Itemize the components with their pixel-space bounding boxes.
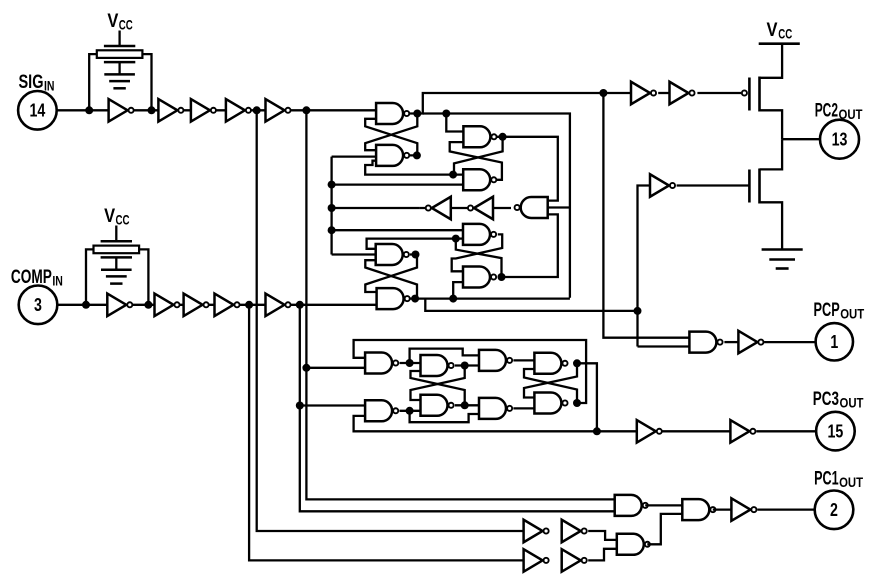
inverter reset-1 (points left) (426, 197, 451, 220)
svg-text:PCP: PCP (814, 300, 840, 321)
wire PC3 bottom rail (N4 output to PC3 inverter) (354, 363, 597, 431)
svg-text:IN: IN (44, 79, 55, 94)
svg-text:CC: CC (116, 213, 130, 228)
NAND gate B (SIG set latch, lower, 3-input) (376, 145, 409, 166)
junction G output (498, 273, 506, 281)
inverter PC1 chain2-a (524, 549, 549, 572)
junction COMP row drop-1 (245, 301, 253, 309)
wire resistor left stub down to SIG row (89, 54, 97, 110)
junction SIG drop-2 / PC3 FF N1 input (302, 364, 310, 372)
svg-text:2: 2 (830, 500, 838, 520)
junction reset rail / reset inverters (328, 204, 336, 212)
NAND gate PCP (689, 332, 722, 353)
wire I output jog down to N-driver net (425, 299, 637, 311)
inverter PC3-1 (637, 420, 662, 443)
NMOS transistor (PC2 pull-down) (749, 139, 782, 249)
NAND gate N4 (PC3 FF) (534, 353, 567, 374)
junction COMP row / resistor left (82, 301, 90, 309)
junction G out net / F bottom input (452, 235, 460, 243)
wire COMP drop-2 to PC1 NAND input (300, 305, 615, 512)
junction I output / G bottom riser (449, 295, 457, 303)
wire reset rail bottom to H mid input (332, 253, 376, 255)
inverter PCP (738, 331, 763, 354)
wire N6 output to N7 top input (455, 404, 479, 406)
junction top rail / PCP drop (599, 89, 607, 97)
wire N-driver net to NMOS inverter (638, 186, 651, 347)
junction COMP row drop-2 (296, 301, 304, 309)
inverter COMP-1 (107, 294, 132, 317)
wire X-coupling N6 out to N2 bottom input (411, 371, 465, 405)
wire X-coupling N8 out to N4 bottom input (524, 369, 577, 403)
wire N7 output to N8 bottom input (513, 407, 534, 409)
wire N5 output to N6 bottom input (400, 410, 421, 412)
wire reset rail vertical (330, 157, 332, 255)
junction N8 output (573, 399, 581, 407)
svg-text:COMP: COMP (11, 267, 52, 288)
wire X-coupling D out to C bottom input (450, 142, 502, 180)
junction SIG row / resistor right (148, 106, 156, 114)
junction N6 output (461, 401, 469, 409)
wire COMP drop-1 to PC1 chain-2 (249, 305, 523, 561)
wire gate A output horizontal to E rail (423, 114, 570, 298)
label COMP_IN (11, 267, 63, 289)
NAND gate H (COMP set latch, upper, 3-input) (376, 244, 409, 265)
wire X-coupling N4 out to N8 top input (524, 363, 577, 397)
junction N4 output (573, 359, 581, 367)
inverter COMP-4 (215, 294, 240, 317)
svg-text:15: 15 (828, 421, 844, 441)
wire X-coupling F out to G top input (452, 234, 503, 271)
junction B output (413, 151, 421, 159)
ground (PC2 driver) (762, 250, 803, 269)
junction N2 output (461, 362, 469, 370)
wire X-coupling H out to I top input (365, 255, 417, 293)
wire I output row to E rail (411, 297, 570, 299)
inverter COMP-5 (266, 294, 291, 317)
wire PCP drop from top rail (V_A) (603, 93, 689, 338)
svg-text:CC: CC (778, 27, 792, 42)
wire N1 output to N2 top input (400, 362, 421, 364)
wire N2 output to N3 bottom input (455, 364, 479, 366)
wire PC3 inverter-2 to pin 15 (756, 430, 816, 432)
wire reset rail to F top input (332, 229, 463, 231)
inverter COMP-3 (184, 294, 209, 317)
inverter SIG-5 (266, 99, 291, 122)
wire N3 output to N4 top input (513, 359, 534, 361)
wire SIG drop-2 to PC1 NAND input (306, 110, 614, 499)
junction SIG row / resistor left (85, 106, 93, 114)
NAND gate C (SIG second latch, upper) (463, 126, 496, 147)
NAND gate N6 (PC3 FF) (421, 395, 454, 416)
VCC pull-up block (SIG input amplifier) (97, 11, 143, 88)
wire reset rail to D bottom input (332, 183, 464, 185)
NAND gate F (COMP second latch, upper) (463, 224, 496, 245)
junction COMP drop-2 / PC3 FF N5 input (296, 402, 304, 410)
pin 2 (PC1_OUT) (815, 491, 854, 530)
junction reset rail / D input (328, 181, 336, 189)
svg-text:PC2: PC2 (815, 100, 838, 121)
label PCP_OUT (814, 300, 865, 322)
wire PC3 top border (N8 output feedback to N1) (354, 340, 586, 403)
wire X-coupling I out to H bottom input (365, 260, 417, 298)
label PC2_OUT (815, 100, 863, 122)
wire COMP drop-2 to N5 input (300, 404, 365, 406)
wire gate A output / top rail to PC2 buffers (407, 93, 631, 114)
wire A output drop to gate C top input (446, 114, 463, 132)
svg-text:3: 3 (34, 295, 42, 315)
wire resistor left stub down to COMP row (86, 249, 94, 304)
svg-text:PC1: PC1 (814, 469, 839, 490)
inverter PC1 chain1-a (524, 520, 549, 543)
wire P1 output to P3 top input (645, 504, 682, 506)
wire PC3 inverter-1 to inverter-2 (662, 430, 730, 432)
wire chain2 to NAND P2 bottom input (588, 549, 617, 561)
svg-text:OUT: OUT (839, 475, 864, 490)
PMOS transistor (PC2 pull-up) (742, 44, 782, 140)
wire COMP_IN row (57, 304, 376, 306)
inverter SIG-2 (158, 99, 183, 122)
wire N-driver net to PCP input (638, 345, 690, 347)
junction H output (412, 251, 420, 259)
wire E mid input from A/I rail (548, 206, 570, 208)
wire resistor right stub down to inverter output node (139, 249, 148, 304)
wire SIG drop-2 to N1 input (306, 367, 365, 369)
junction A output / C top input drop (442, 110, 450, 118)
svg-text:13: 13 (832, 130, 848, 150)
junction COMP row / resistor right (144, 301, 152, 309)
NAND gate N8 (PC3 FF) (534, 393, 567, 414)
wire N1 over-route to N3 top input (410, 349, 479, 363)
wire PC3 rail to inverter (597, 430, 637, 432)
junction I output / X-coupling (411, 295, 419, 303)
wire C output to E top rail (497, 137, 558, 201)
wire I output riser to G bottom input (453, 282, 463, 299)
NAND gate N7 (PC3 FF) (479, 398, 512, 419)
wire X-coupling A out to B top input (365, 114, 417, 151)
wire buffer chain to PMOS gate (658, 92, 669, 94)
NAND gate N2 (PC3 FF) (421, 355, 454, 376)
wire E output to reset inverters (419, 207, 511, 209)
wire buffer-2 to PMOS gate bubble (697, 92, 741, 94)
junction SIG row drop-1 (253, 106, 261, 114)
NAND gate D (SIG second latch, lower) (463, 169, 496, 190)
buffer PC2-P2 (670, 82, 695, 105)
wire reset rail top to B mid input (332, 155, 377, 157)
inverter SIG-1 (109, 99, 134, 122)
wire P2 output riser to P3 (647, 514, 682, 544)
NAND gate P2 (PC1) (617, 534, 650, 555)
pin 3 (COMP_IN) (19, 286, 58, 325)
label PC1_OUT (814, 469, 864, 491)
wire reset rail to inverter chain (332, 207, 420, 209)
wire G output to E bottom rail (502, 214, 558, 277)
inverter PC3-2 (730, 420, 755, 443)
label PC3_OUT (813, 389, 864, 411)
wire X-coupling N2 out to N6 top input (411, 366, 465, 401)
svg-text:1: 1 (830, 332, 838, 352)
svg-text:14: 14 (30, 101, 46, 121)
svg-text:OUT: OUT (840, 307, 865, 322)
NAND gate E (3-input reset, points left) (515, 197, 548, 218)
NAND gate P1 (PC1) (615, 495, 648, 516)
wire X-coupling G out to F bottom input (456, 239, 502, 277)
wire PC2 output node to pin 13 (782, 138, 820, 140)
inverter reset-2 (points left) (468, 197, 493, 220)
svg-text:IN: IN (52, 274, 63, 289)
inverter PC1 chain1-b (562, 520, 587, 543)
NAND gate N5 (PC3 FF) (365, 400, 398, 421)
wire NMOS inverter output to gate (677, 184, 750, 186)
junction reset rail / F input (328, 226, 336, 234)
inverter COMP-2 (155, 294, 180, 317)
wire SIG drop-1 to PC1 chain-1 (257, 110, 524, 531)
NAND gate P3 (PC1) (682, 499, 715, 520)
junction PC3 bottom rail / output inverter (593, 427, 601, 435)
wire PCP inverter to pin 1 (764, 341, 815, 343)
wire G/F net to F bottom input (456, 237, 463, 239)
NAND gate G (COMP second latch, lower) (463, 267, 496, 288)
junction C output (499, 133, 507, 141)
svg-text:V: V (767, 20, 778, 41)
wire G/F net to H top input (367, 239, 456, 249)
NAND gate I (COMP set latch, lower) (377, 288, 410, 309)
junction N-driver net / PCP input (634, 307, 642, 315)
svg-text:OUT: OUT (840, 395, 865, 410)
inverter SIG-4 (226, 99, 251, 122)
svg-text:PC3: PC3 (813, 389, 839, 410)
junction N1 output (406, 359, 414, 367)
NAND gate N1 (PC3 FF) (365, 353, 398, 374)
inverter PC2-N (650, 174, 675, 197)
junction C/D net / D top input (449, 171, 457, 179)
NAND gate N3 (PC3 FF) (479, 350, 512, 371)
wire N5 under-route to N7 bottom input (410, 411, 479, 422)
wire SIG_IN row (57, 109, 376, 111)
wire chain1 to NAND P2 top input (588, 531, 617, 540)
wire P3 to inverter (713, 508, 732, 510)
junction SIG row drop-2 (302, 106, 310, 114)
svg-text:V: V (104, 206, 115, 227)
svg-text:V: V (107, 11, 118, 32)
VCC supply (PC2 driver) (759, 20, 800, 44)
VCC pull-up block (COMP input amplifier) (94, 206, 140, 284)
pin 14 (SIG_IN) (18, 91, 57, 130)
pin 15 (PC3_OUT) (816, 412, 855, 451)
wire PCP NAND to inverter (724, 341, 738, 343)
junction A output / X-coupling (413, 110, 421, 118)
inverter PC1 chain2-b (562, 549, 587, 572)
pin 1 (PCP_OUT) (816, 323, 853, 360)
inverter SIG-3 (191, 99, 216, 122)
inverter PC1 (731, 498, 756, 520)
wire resistor right stub down to inverter output node (142, 54, 151, 110)
pin 13 (PC2_OUT) (820, 120, 859, 159)
wire B bottom input loop to C/D net (365, 161, 463, 175)
label SIG_IN (19, 72, 55, 94)
NAND gate A (SIG set latch, upper) (376, 103, 409, 124)
wire X-coupling C out to D top input (454, 137, 503, 175)
wire X-coupling B out to A bottom input (365, 119, 417, 156)
svg-text:CC: CC (119, 18, 133, 33)
wire PC1 inverter to pin 2 (757, 508, 814, 510)
buffer PC2-P1 (631, 82, 656, 105)
junction N5 output (406, 407, 414, 415)
